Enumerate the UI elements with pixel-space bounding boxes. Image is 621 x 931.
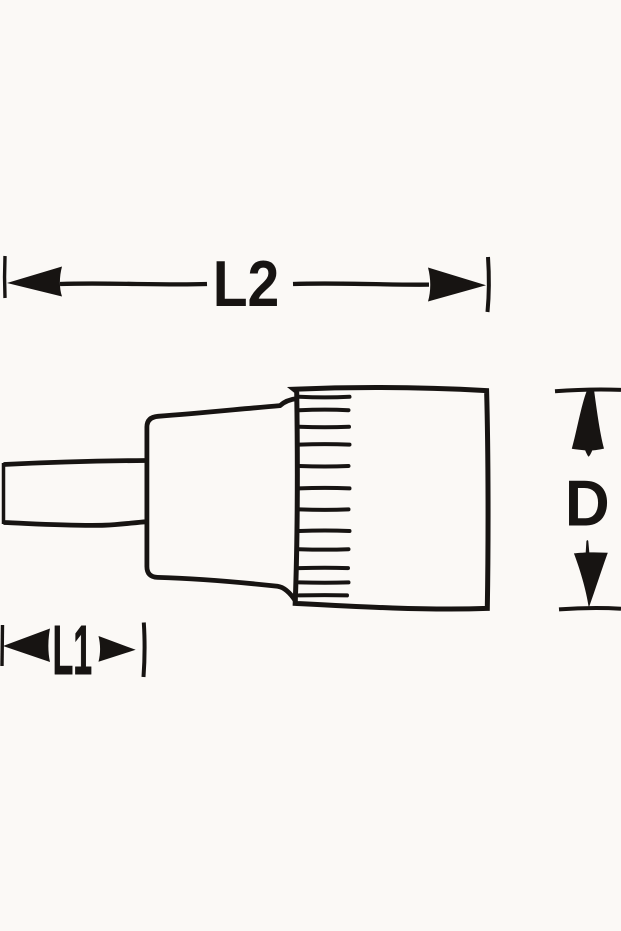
svg-text:D: D bbox=[565, 467, 610, 540]
knurl line 1 bbox=[299, 395, 349, 400]
knurl line 8 bbox=[299, 529, 349, 533]
knurl line 12 bbox=[299, 593, 347, 597]
shaft bottom edge bbox=[4, 522, 147, 526]
svg-text:L1: L1 bbox=[53, 611, 93, 689]
knurl line 11 bbox=[299, 580, 348, 584]
dimension L2 left arrowhead bbox=[7, 267, 62, 297]
knurl line 4 bbox=[299, 442, 349, 446]
dimension L2 left line bbox=[60, 281, 207, 286]
adapter body outline bbox=[147, 399, 297, 602]
svg-text:L2: L2 bbox=[213, 248, 280, 320]
socket body outline bbox=[294, 388, 488, 609]
dimension L1 right arrowhead bbox=[99, 636, 136, 662]
shaft left end bbox=[2, 463, 6, 524]
dimension D bottom tick bbox=[559, 608, 621, 609]
knurl line 6 bbox=[299, 486, 349, 490]
knurl line 7 bbox=[299, 507, 348, 511]
knurl line 10 bbox=[299, 566, 348, 570]
dimension L2 right tick bbox=[488, 257, 489, 312]
dimension D up arrowhead bbox=[572, 391, 604, 457]
shaft top edge bbox=[4, 461, 147, 465]
dimension L1 left arrowhead bbox=[3, 629, 50, 663]
dimension L1 left tick bbox=[0, 625, 4, 666]
knurl line 5 bbox=[299, 464, 348, 469]
dimension D top tick bbox=[555, 390, 621, 392]
dimension L2 left tick bbox=[3, 256, 7, 298]
dimension L2 right arrowhead bbox=[428, 268, 486, 302]
knurl line 3 bbox=[299, 425, 349, 429]
dimension L2 right line bbox=[293, 283, 429, 284]
dimension L1 right tick bbox=[144, 623, 145, 678]
dimension D down arrowhead bbox=[574, 540, 608, 608]
knurl line 9 bbox=[299, 547, 348, 551]
knurl line 2 bbox=[299, 408, 348, 413]
